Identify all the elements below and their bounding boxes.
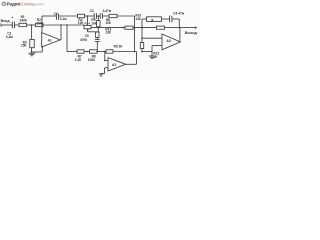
svg-text:R9 2К: R9 2К (114, 45, 123, 49)
svg-text:1К: 1К (154, 55, 158, 59)
label R13 13К (105, 27, 111, 34)
svg-text:15К: 15К (105, 21, 111, 25)
resistor R3 (30, 39, 34, 47)
node E (C3/C4 midpoint) (98, 15, 100, 17)
resistor R12 (140, 38, 143, 51)
svg-text:10К: 10К (36, 21, 42, 25)
wire R9 to rail end (113, 51, 137, 53)
wire C5 to bottom rail (96, 42, 98, 52)
wire A2 minus input (105, 60, 108, 62)
resistor R10 (125, 26, 133, 29)
label R3 15К (21, 40, 27, 47)
node I (mid rail) (122, 27, 124, 29)
wire feedback rail to C2 (42, 15, 56, 17)
svg-text:С3: С3 (90, 9, 94, 13)
wire R3 to ground (31, 48, 33, 54)
wire node D to R14 (86, 16, 88, 25)
node B (R3/A1 plus junction) (31, 51, 33, 53)
op-amp A2 (108, 58, 126, 71)
wire node E to R5 (97, 16, 99, 21)
wire R6 to drop (117, 15, 135, 17)
svg-text:15К: 15К (21, 44, 27, 48)
svg-text:А3: А3 (166, 39, 170, 43)
wire A2 output (126, 51, 137, 64)
svg-text:10К: 10К (78, 21, 84, 25)
capacitor C5 (95, 39, 100, 41)
wire C2 to R4 (59, 15, 78, 17)
capacitor C6 (170, 16, 172, 23)
node H (below R14) (87, 29, 89, 31)
wire input to C1 (1, 24, 12, 26)
resistor R7 (77, 50, 84, 53)
wire A1 plus to node B (32, 51, 43, 53)
wire bottom rail to R7 (67, 51, 77, 53)
resistor R1 (19, 23, 27, 26)
label R10 13К (135, 13, 141, 20)
node N (A2 minus tap) (104, 51, 106, 53)
op-amp A1 (42, 33, 61, 47)
label R5 10К (91, 18, 97, 25)
node J (drop crossing) (134, 27, 136, 29)
node S (R12 tap) (141, 37, 143, 39)
svg-text:III: III (151, 18, 154, 22)
resistor R6 (109, 14, 117, 17)
component box U1 (147, 17, 162, 22)
ground (28, 53, 35, 56)
svg-text:3,3м: 3,3м (6, 35, 14, 39)
wire C6 to output node (172, 19, 179, 28)
node P (A2 minus) (104, 60, 106, 62)
svg-text:240К: 240К (20, 18, 27, 22)
resistor R2 (36, 23, 44, 26)
resistor R9 (106, 50, 113, 53)
label R8 100К (88, 55, 96, 62)
node K (A3 input branch) (141, 27, 143, 29)
wire R4 to C3 (85, 15, 95, 17)
wire node K to U1 box (142, 18, 147, 20)
wire A2 plus input (101, 68, 108, 74)
wire node K riser (141, 19, 143, 38)
capacitor C1 (11, 16, 14, 28)
resistor R14 (84, 25, 91, 28)
svg-text:РадиоСхемы.нет: РадиоСхемы.нет (7, 2, 46, 7)
resistor R13 (96, 32, 99, 37)
svg-text:Вход: Вход (1, 19, 11, 23)
label R6 15К (105, 18, 111, 25)
wire A1 plus input down (41, 46, 43, 52)
op-amp A3 (162, 34, 180, 50)
svg-text:А2: А2 (112, 63, 116, 67)
wire mid rail to R11 (133, 27, 157, 29)
wire R2 to A1 output node (43, 24, 84, 26)
svg-text:0,47м: 0,47м (103, 9, 112, 13)
wire A2 minus riser (104, 52, 106, 61)
svg-text:2,2К: 2,2К (75, 58, 81, 62)
wire R1 to R2 (27, 24, 36, 26)
node A (R1/R2/R3 junction) (31, 24, 33, 26)
capacitor C2 (56, 14, 58, 20)
mid rail wire (91, 27, 126, 29)
wire C3 to C4 (96, 15, 100, 17)
wire node H stub (87, 29, 89, 32)
wire A3 minus input (142, 37, 162, 39)
wire drop to bottom rail (134, 16, 136, 52)
wire C1 to R1 (14, 24, 19, 26)
wire C4 to R6 (102, 15, 109, 17)
wire A3 plus input (142, 46, 162, 56)
capacitor C3 (94, 13, 96, 19)
wire U1 to C6 (162, 18, 170, 20)
svg-text:4700: 4700 (80, 38, 87, 42)
node R (output) (179, 27, 181, 29)
svg-text:С2: С2 (54, 12, 58, 16)
label R7 2,2К (75, 55, 82, 62)
node C (A1 output) (60, 24, 62, 26)
svg-text:А1: А1 (48, 39, 52, 43)
wire R13 to C5 (96, 37, 98, 39)
node F (mid rail junction) (98, 27, 100, 29)
wire R11 to output node (165, 27, 180, 29)
wire A1 output riser (60, 25, 62, 40)
label R4 10К (78, 18, 84, 25)
label C2 0,1м (54, 12, 68, 21)
wire R7 to R8 (84, 51, 90, 53)
wire A3 output riser (179, 28, 181, 42)
capacitor C4 (100, 13, 102, 19)
node M (R7/R8 junction) (87, 51, 89, 53)
resistor R5 (97, 21, 100, 27)
node Q (R12 bottom) (141, 51, 143, 53)
svg-text:100К: 100К (88, 58, 95, 62)
svg-text:+: + (11, 16, 13, 20)
wire node C down to bottom rail (66, 25, 68, 52)
resistor R4 (78, 14, 85, 17)
wire R5 to R13 (97, 27, 99, 32)
label C1 3,3м (6, 32, 14, 40)
svg-text:С6 47м: С6 47м (173, 11, 185, 15)
wire A1 inverting input riser (41, 16, 43, 33)
label R2 10К (36, 18, 42, 25)
watermark logo (2, 2, 7, 7)
input terminal (0, 23, 2, 26)
svg-text:10К: 10К (91, 21, 97, 25)
svg-text:13К: 13К (135, 17, 141, 21)
wire R8 to R9 (97, 51, 106, 53)
svg-text:13К: 13К (105, 31, 111, 35)
node G (bottom rail junction) (97, 51, 99, 53)
label R12 1К (153, 52, 159, 60)
ground A3 (149, 56, 156, 59)
label R1 240К (20, 15, 27, 23)
wire node A down to R3 (31, 25, 33, 39)
label C5 4700 (80, 34, 89, 42)
wire output arrow (180, 26, 198, 28)
node D (top rail junction) (87, 15, 89, 17)
resistor R8 (90, 50, 98, 53)
svg-text:Выход: Выход (185, 31, 198, 35)
resistor R11 (157, 26, 165, 29)
node O (bottom rail end) (134, 51, 136, 53)
svg-text:0,1м: 0,1м (60, 17, 67, 21)
wire node H to R13 (88, 31, 98, 33)
node L (rail tap) (66, 24, 68, 26)
ground A2 (99, 74, 103, 76)
